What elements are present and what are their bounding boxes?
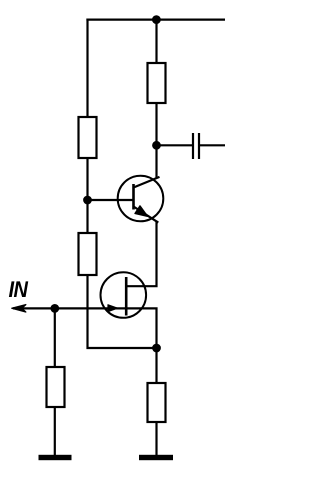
node input junction dot [52,305,59,312]
wire top supply rail [86,19,225,21]
resistor R2 (lower bias divider) [79,233,97,275]
resistor R1 (upper bias divider) [79,117,97,158]
transistor Q2 (N-channel JFET) [101,272,147,318]
wire capacitor right lead to edge [199,144,225,146]
wire base wire to Q1 [88,199,134,201]
wire down from input node [54,308,56,367]
resistor R5 (gate bias) [47,367,65,407]
wire left rail upper segment [86,19,88,118]
wire collector rail segment [155,103,157,179]
node source junction dot [153,345,160,352]
node collector/output junction dot [153,142,160,149]
wire right rail top segment [155,20,157,63]
wire left rail middle segment [86,158,88,233]
wire to capacitor left plate [157,144,194,146]
capacitor C1 output coupling [193,133,199,159]
resistor R4 (source load) [148,383,166,422]
ground right [139,455,173,460]
wire R4 to ground [155,422,157,456]
wire left rail lower segment down and right to source node [88,275,157,348]
node base junction dot [84,197,91,204]
transistor Q1 (NPN BJT) [118,176,164,223]
wire Q1 emitter down to Q2 drain [125,221,156,286]
ground left [39,455,72,460]
node supply junction dot [153,16,160,23]
wire gate/input line with source continuation [13,308,157,383]
resistor R3 (collector load) [148,63,166,103]
input arrow head [12,305,26,312]
wire R5 to ground [54,407,56,456]
IN net label [9,281,28,297]
